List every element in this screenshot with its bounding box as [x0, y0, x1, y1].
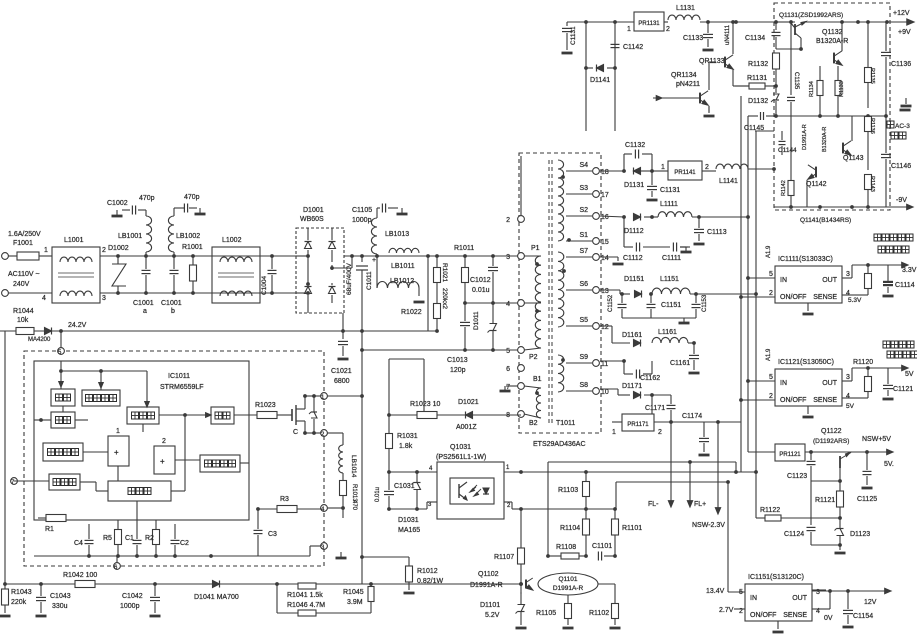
svg-text:1: 1 — [116, 428, 120, 435]
svg-text:+12V: +12V — [893, 10, 910, 17]
svg-text:LB1012: LB1012 — [390, 278, 414, 285]
svg-text:3: 3 — [102, 295, 106, 302]
svg-text:C: C — [293, 429, 298, 436]
svg-text:C1004: C1004 — [261, 275, 268, 295]
svg-text:S8: S8 — [579, 382, 588, 389]
svg-text:IC1151(S13120C): IC1151(S13120C) — [748, 574, 804, 581]
svg-text:2: 2 — [769, 290, 773, 297]
svg-text:AC110V ~: AC110V ~ — [8, 271, 40, 278]
svg-text:C4: C4 — [74, 540, 83, 547]
svg-text:C1154: C1154 — [853, 613, 873, 620]
svg-text:D1001: D1001 — [303, 207, 324, 214]
svg-text:R1046 4.7M: R1046 4.7M — [287, 602, 325, 609]
svg-text:C1133: C1133 — [683, 35, 703, 42]
svg-text:D1041 MA700: D1041 MA700 — [194, 594, 239, 601]
svg-text:0.01u: 0.01u — [375, 487, 381, 502]
svg-text:C1171: C1171 — [645, 405, 665, 412]
svg-text:WB60S: WB60S — [300, 216, 324, 223]
svg-text:A1.9: A1.9 — [766, 348, 772, 361]
svg-text:STRM6559LF: STRM6559LF — [160, 384, 204, 391]
svg-text:5: 5 — [769, 374, 773, 381]
svg-text:R1132: R1132 — [748, 61, 768, 68]
svg-text:C1013: C1013 — [447, 357, 468, 364]
svg-text:1000p: 1000p — [120, 603, 140, 610]
svg-text:SENSE: SENSE — [783, 612, 807, 619]
svg-text:D1123: D1123 — [850, 531, 870, 538]
svg-text:L1111: L1111 — [660, 201, 678, 208]
svg-text:1000p: 1000p — [352, 217, 372, 224]
svg-text:13: 13 — [601, 288, 609, 295]
svg-text:13.4V: 13.4V — [706, 588, 725, 595]
svg-text:C1113: C1113 — [707, 229, 727, 236]
svg-text:D1991A-R: D1991A-R — [553, 585, 584, 592]
svg-text:3: 3 — [846, 374, 850, 381]
svg-text:12V: 12V — [864, 599, 877, 606]
svg-text:C1132: C1132 — [625, 142, 645, 149]
svg-text:P1: P1 — [531, 245, 540, 252]
svg-text:S6: S6 — [579, 281, 588, 288]
svg-text:D1101: D1101 — [480, 602, 500, 609]
svg-text:C1162: C1162 — [640, 375, 660, 382]
svg-text:C1161: C1161 — [670, 360, 690, 367]
svg-text:4: 4 — [42, 295, 46, 302]
svg-text:R1103: R1103 — [558, 487, 578, 494]
svg-text:R1: R1 — [45, 526, 54, 533]
svg-text:S5: S5 — [579, 317, 588, 324]
svg-text:LB1013: LB1013 — [385, 231, 409, 238]
svg-text:C1: C1 — [125, 535, 134, 542]
svg-text:pN4211: pN4211 — [676, 81, 700, 88]
svg-text:10: 10 — [601, 389, 609, 396]
svg-text:ON/OFF: ON/OFF — [780, 294, 806, 301]
svg-text:D1002: D1002 — [108, 245, 129, 252]
svg-text:C1011: C1011 — [366, 271, 373, 290]
svg-text:Q1031: Q1031 — [450, 444, 471, 451]
svg-text:2: 2 — [102, 247, 106, 254]
svg-text:0V: 0V — [824, 615, 833, 622]
svg-text:24.2V: 24.2V — [68, 322, 87, 329]
svg-text:C1043: C1043 — [50, 593, 71, 600]
svg-text:R1121: R1121 — [815, 497, 835, 504]
svg-text:6: 6 — [506, 366, 510, 373]
svg-text:Q1143: Q1143 — [843, 155, 864, 162]
svg-text:LB1011: LB1011 — [391, 263, 415, 270]
svg-text:D1161: D1161 — [622, 332, 642, 339]
svg-text:PR1171: PR1171 — [627, 422, 649, 428]
svg-text:PR1131: PR1131 — [638, 21, 660, 27]
svg-text:C1105: C1105 — [352, 207, 372, 214]
svg-text:C1002: C1002 — [107, 200, 128, 207]
svg-text:QR1134: QR1134 — [671, 72, 697, 79]
svg-text:R1104: R1104 — [560, 525, 580, 532]
svg-text:2: 2 — [705, 164, 709, 171]
svg-text:SENSE: SENSE — [813, 397, 837, 404]
svg-text:b: b — [171, 308, 175, 315]
svg-text:0.01u: 0.01u — [472, 287, 490, 294]
svg-text:D1011: D1011 — [473, 311, 480, 330]
svg-text:MA165: MA165 — [398, 527, 420, 534]
svg-text:F1001: F1001 — [13, 240, 33, 247]
svg-text:C1012: C1012 — [470, 277, 491, 284]
svg-text:C1131: C1131 — [570, 26, 577, 45]
svg-text:470p: 470p — [184, 194, 200, 201]
svg-text:(PS2561L1-1W): (PS2561L1-1W) — [436, 454, 486, 461]
svg-text:LB1002: LB1002 — [176, 233, 200, 240]
svg-text:OUT: OUT — [822, 277, 838, 284]
svg-text:AC-3: AC-3 — [895, 123, 910, 130]
svg-text:NSW+5V: NSW+5V — [862, 436, 891, 443]
svg-text:L1141: L1141 — [719, 178, 738, 185]
svg-text:C1125: C1125 — [857, 496, 877, 503]
svg-text:5V: 5V — [905, 371, 914, 378]
svg-text:68uF/400V: 68uF/400V — [346, 263, 353, 295]
svg-text:C1042: C1042 — [122, 593, 143, 600]
svg-text:R1134: R1134 — [809, 81, 815, 97]
svg-text:IC1011: IC1011 — [168, 373, 190, 380]
svg-text:R1105: R1105 — [536, 610, 556, 617]
svg-text:Q1102: Q1102 — [478, 571, 499, 578]
svg-text:IN: IN — [780, 277, 787, 284]
svg-text:IN: IN — [750, 595, 757, 602]
svg-text:C1114: C1114 — [895, 282, 915, 289]
svg-text:S4: S4 — [579, 162, 588, 169]
svg-text:1: 1 — [612, 429, 616, 436]
svg-text:Q1132: Q1132 — [822, 29, 843, 36]
svg-text:C1136: C1136 — [891, 61, 911, 68]
svg-text:C1111: C1111 — [662, 255, 681, 262]
svg-text:330u: 330u — [52, 603, 68, 610]
svg-text:+: + — [160, 457, 165, 466]
svg-text:4: 4 — [846, 290, 850, 297]
svg-text:R1001: R1001 — [182, 244, 203, 251]
svg-text:D1991A-R: D1991A-R — [470, 582, 503, 589]
svg-text:D1151: D1151 — [624, 276, 644, 283]
svg-text:10k: 10k — [17, 317, 29, 324]
svg-text:4: 4 — [506, 301, 510, 308]
svg-text:-9V: -9V — [896, 197, 907, 204]
svg-text:P2: P2 — [529, 354, 538, 361]
svg-text:Q1131(ZSD1992ARS): Q1131(ZSD1992ARS) — [779, 12, 843, 19]
svg-text:R1133: R1133 — [839, 81, 845, 97]
svg-text:B1320A-R: B1320A-R — [816, 38, 848, 45]
svg-text:R1041 1.5k: R1041 1.5k — [287, 592, 323, 599]
svg-text:R1122: R1122 — [760, 507, 780, 514]
svg-text:R5: R5 — [103, 535, 112, 542]
svg-text:R1101: R1101 — [622, 525, 642, 532]
svg-text:PR1141: PR1141 — [674, 170, 696, 176]
svg-text:D1031: D1031 — [398, 517, 419, 524]
svg-text:5V: 5V — [846, 403, 855, 410]
svg-text:C1142: C1142 — [623, 44, 643, 51]
svg-text:D1021: D1021 — [458, 399, 479, 406]
svg-text:T1011: T1011 — [556, 420, 575, 427]
svg-text:C1174: C1174 — [682, 413, 702, 420]
svg-text:5: 5 — [769, 271, 773, 278]
svg-text:+9V: +9V — [898, 29, 911, 36]
svg-text:2: 2 — [506, 217, 510, 224]
svg-text:S9: S9 — [579, 354, 588, 361]
svg-text:FL-: FL- — [648, 501, 659, 508]
svg-text:C2: C2 — [180, 540, 189, 547]
svg-text:C1123: C1123 — [787, 473, 807, 480]
svg-text:R1135: R1135 — [869, 68, 875, 84]
svg-text:1: 1 — [627, 26, 631, 33]
svg-text:6800: 6800 — [334, 378, 350, 385]
svg-text:C1151: C1151 — [661, 302, 681, 309]
svg-text:2: 2 — [162, 438, 166, 445]
svg-text:1.6A/250V: 1.6A/250V — [8, 231, 41, 238]
svg-text:uN4111: uN4111 — [725, 24, 731, 45]
svg-text:D1131: D1131 — [624, 182, 644, 189]
svg-text:C1101: C1101 — [592, 543, 612, 550]
svg-text:R1012: R1012 — [417, 568, 438, 575]
svg-text:MA4200: MA4200 — [28, 337, 51, 343]
svg-text:SENSE: SENSE — [813, 294, 837, 301]
svg-text:R3: R3 — [280, 496, 289, 503]
svg-text:220kx2: 220kx2 — [441, 288, 448, 309]
svg-text:C1144: C1144 — [778, 147, 797, 154]
svg-text:R1031: R1031 — [397, 433, 418, 440]
svg-text:S3: S3 — [579, 185, 588, 192]
svg-text:12: 12 — [601, 324, 609, 331]
svg-text:L1131: L1131 — [676, 5, 695, 12]
svg-text:5.3V: 5.3V — [848, 297, 862, 304]
svg-text:R1120: R1120 — [853, 359, 873, 366]
svg-text:R1142: R1142 — [781, 180, 787, 196]
svg-text:5.2V: 5.2V — [485, 612, 500, 619]
svg-text:LB1001: LB1001 — [118, 233, 142, 240]
svg-text:470p: 470p — [139, 195, 155, 202]
svg-text:C1153: C1153 — [702, 294, 708, 312]
svg-text:D1141: D1141 — [590, 77, 610, 84]
svg-text:S1: S1 — [579, 232, 588, 239]
svg-text:1: 1 — [44, 247, 48, 254]
svg-text:470: 470 — [351, 500, 357, 511]
svg-text:R2: R2 — [145, 535, 154, 542]
svg-text:D1132: D1132 — [748, 98, 768, 105]
svg-text:NSW-2.3V: NSW-2.3V — [692, 522, 725, 529]
svg-text:C3: C3 — [268, 531, 277, 538]
svg-text:15: 15 — [601, 239, 609, 246]
svg-text:+: + — [114, 448, 119, 457]
svg-text:Q1122: Q1122 — [821, 428, 842, 435]
svg-text:R1136: R1136 — [869, 118, 875, 134]
svg-text:R1102: R1102 — [589, 610, 609, 617]
svg-text:D1112: D1112 — [624, 228, 644, 235]
svg-text:IC1121(S13050C): IC1121(S13050C) — [778, 359, 834, 366]
svg-text:OUT: OUT — [822, 380, 838, 387]
svg-text:C1121: C1121 — [893, 386, 913, 393]
svg-text:C1001: C1001 — [161, 300, 182, 307]
svg-text:17: 17 — [601, 192, 609, 199]
svg-text:11: 11 — [601, 361, 608, 368]
svg-text:B2: B2 — [529, 420, 538, 427]
svg-text:C1146: C1146 — [891, 163, 911, 170]
svg-text:120p: 120p — [450, 367, 466, 374]
svg-text:R1107: R1107 — [494, 554, 514, 561]
svg-text:R1021: R1021 — [441, 263, 448, 283]
svg-text:R1043: R1043 — [11, 589, 32, 596]
svg-text:R1143: R1143 — [869, 176, 875, 192]
svg-text:PR1121: PR1121 — [779, 452, 801, 458]
svg-text:R1022: R1022 — [401, 309, 422, 316]
svg-text:ON/OFF: ON/OFF — [750, 612, 776, 619]
svg-text:C1134: C1134 — [745, 35, 765, 42]
svg-text:R1023 10: R1023 10 — [410, 401, 440, 408]
svg-text:3: 3 — [506, 254, 510, 261]
svg-text:OUT: OUT — [792, 595, 808, 602]
svg-text:A001Z: A001Z — [456, 424, 477, 431]
svg-text:C1021: C1021 — [331, 368, 352, 375]
svg-text:2: 2 — [769, 393, 773, 400]
svg-text:+: + — [372, 257, 376, 264]
svg-text:ON/OFF: ON/OFF — [780, 397, 806, 404]
svg-text:Q1101: Q1101 — [558, 576, 577, 583]
svg-text:2.7V: 2.7V — [719, 607, 734, 614]
svg-text:L1001: L1001 — [64, 237, 84, 244]
svg-text:18: 18 — [601, 169, 609, 176]
svg-text:220k: 220k — [11, 599, 27, 606]
svg-text:L1002: L1002 — [222, 237, 242, 244]
svg-text:R1023: R1023 — [255, 402, 276, 409]
svg-text:L1161: L1161 — [658, 329, 677, 336]
svg-text:ETS29AD436AC: ETS29AD436AC — [533, 441, 586, 448]
svg-text:B1320A-R: B1320A-R — [822, 127, 828, 152]
svg-text:1: 1 — [661, 164, 665, 171]
svg-text:(D1192ARS): (D1192ARS) — [813, 438, 849, 445]
svg-text:L1151: L1151 — [660, 276, 679, 283]
svg-text:Q1141(B1434RS): Q1141(B1434RS) — [800, 217, 851, 224]
svg-text:C1001: C1001 — [133, 300, 154, 307]
svg-text:2: 2 — [658, 429, 662, 436]
svg-text:16: 16 — [601, 214, 609, 221]
svg-text:2: 2 — [666, 26, 670, 33]
svg-text:3: 3 — [846, 271, 850, 278]
svg-text:R1131: R1131 — [747, 75, 767, 82]
svg-text:14: 14 — [601, 255, 609, 262]
svg-text:IN: IN — [780, 380, 787, 387]
svg-text:FL+: FL+ — [694, 501, 706, 508]
svg-text:3.9M: 3.9M — [347, 599, 363, 606]
svg-text:5: 5 — [506, 348, 510, 355]
svg-text:LB1014: LB1014 — [350, 455, 357, 478]
svg-text:R1044: R1044 — [13, 308, 34, 315]
svg-text:Q1142: Q1142 — [806, 181, 827, 188]
svg-text:R1108: R1108 — [556, 544, 576, 551]
svg-text:240V: 240V — [13, 281, 30, 288]
svg-text:IC1111(S13033C): IC1111(S13033C) — [778, 256, 833, 263]
svg-text:1.8k: 1.8k — [399, 443, 413, 450]
svg-text:C1124: C1124 — [784, 531, 804, 538]
svg-text:B1: B1 — [533, 376, 542, 383]
svg-text:R1042 100: R1042 100 — [63, 572, 97, 579]
svg-text:D1991A-R: D1991A-R — [802, 124, 808, 150]
svg-text:C1135: C1135 — [793, 72, 799, 90]
svg-text:C1131: C1131 — [660, 187, 680, 194]
svg-text:3.3V: 3.3V — [902, 267, 917, 274]
svg-text:A1.9: A1.9 — [766, 245, 772, 258]
svg-text:5V.: 5V. — [884, 461, 894, 468]
svg-text:C1152: C1152 — [608, 294, 614, 312]
svg-text:R1011: R1011 — [454, 245, 474, 252]
svg-text:a: a — [143, 308, 147, 315]
svg-text:0.82/1W: 0.82/1W — [417, 578, 443, 585]
svg-text:C1112: C1112 — [623, 255, 643, 262]
svg-text:S7: S7 — [579, 248, 588, 255]
svg-text:D1171: D1171 — [622, 383, 642, 390]
svg-text:4: 4 — [846, 393, 850, 400]
svg-text:S2: S2 — [579, 207, 588, 214]
svg-text:R1045: R1045 — [343, 589, 364, 596]
